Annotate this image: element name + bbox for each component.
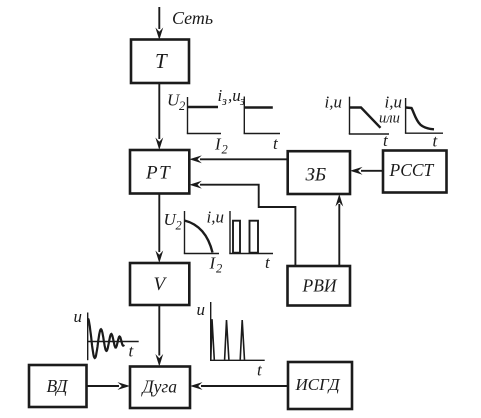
svg-text:2: 2 <box>216 262 222 276</box>
svg-text:2: 2 <box>179 99 185 113</box>
block RVI <box>288 266 351 306</box>
wire RSST to ZB <box>361 170 383 172</box>
wire V to Duga <box>158 305 160 356</box>
graph C1: i,u linear decay vs t <box>349 97 351 134</box>
svg-text:РВИ: РВИ <box>302 276 338 296</box>
svg-text:ИСГД: ИСГД <box>295 375 341 394</box>
svg-text:,u: ,u <box>228 86 241 105</box>
wire RT to V <box>158 194 160 253</box>
svg-text:РССТ: РССТ <box>389 160 435 180</box>
wire RVI to RT (stepped) <box>200 185 295 265</box>
wire mains input arrow into T <box>158 7 160 29</box>
wire VD to Duga <box>87 385 120 387</box>
block V (arc gap / oscillator) <box>130 263 189 305</box>
svg-text:ЗБ: ЗБ <box>306 165 327 186</box>
svg-text:или: или <box>379 111 400 127</box>
svg-text:ВД: ВД <box>47 376 69 396</box>
svg-text:з: з <box>239 94 245 108</box>
graph B2: i,u rectangular pulses vs t <box>229 211 231 254</box>
block RT (current regulator) <box>130 150 189 194</box>
svg-text:2: 2 <box>222 143 228 157</box>
block RSST <box>383 151 447 193</box>
wire ISGD to Duga <box>201 385 288 387</box>
graph E: voltage spikes u vs t <box>210 302 212 360</box>
block T (transformer) <box>131 40 189 84</box>
block ISGD <box>288 362 352 409</box>
wire ZB to RT <box>200 158 288 160</box>
svg-text:з: з <box>221 94 227 108</box>
block Duga (arc) <box>130 367 190 409</box>
graph B1: U2 vs I2 drooping characteristic <box>184 211 186 254</box>
svg-text:Т: Т <box>155 49 168 73</box>
wire T to RT <box>158 83 160 139</box>
svg-text:i,u: i,u <box>385 93 402 112</box>
svg-text:2: 2 <box>176 219 182 233</box>
graph A2: iз,uз vs t flat pulse <box>243 97 245 134</box>
graph C2: i,u exponential decay vs t <box>405 98 407 133</box>
wire RVI to ZB <box>338 204 340 265</box>
svg-text:РТ: РТ <box>145 163 171 184</box>
block VD <box>29 365 87 407</box>
graph D: damped oscillation u vs t <box>87 313 89 361</box>
svg-text:i,u: i,u <box>207 208 224 227</box>
svg-text:u: u <box>197 300 206 319</box>
block ZB (driver) <box>288 151 350 194</box>
svg-text:Сеть: Сеть <box>172 8 213 28</box>
graph A1: U2 vs I2 flat characteristic <box>187 97 189 134</box>
svg-text:Дуга: Дуга <box>141 377 178 397</box>
svg-text:i,u: i,u <box>325 93 342 112</box>
svg-text:u: u <box>74 307 83 326</box>
